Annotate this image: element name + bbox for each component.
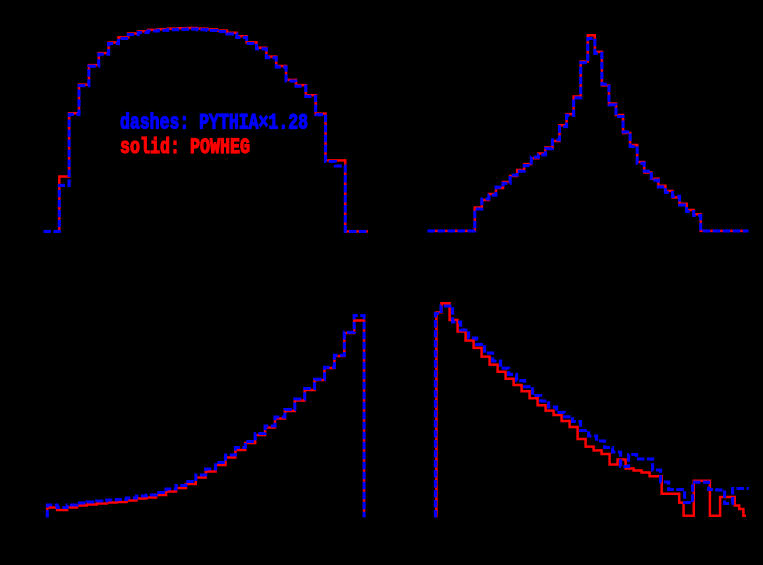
svg-text:dashes: PYTHIA×1.28: dashes: PYTHIA×1.28 — [120, 110, 308, 136]
bottom-left panel: PYTHIA dashed blue histogram — [47, 316, 364, 518]
bottom-left panel: POWHEG solid red histogram (rising distribution) — [47, 321, 364, 518]
bottom-right panel: PYTHIA dashed blue histogram — [435, 306, 748, 518]
top-left panel: POWHEG solid red histogram (rapidity distribution) — [59, 28, 368, 231]
svg-text:solid: POWHEG: solid: POWHEG — [120, 134, 250, 160]
bottom-right panel: POWHEG solid red histogram (falling distribution) — [436, 303, 746, 517]
top-right panel: PYTHIA dashed blue histogram — [428, 39, 749, 231]
top-left panel: PYTHIA dashed blue histogram — [44, 29, 369, 231]
top-right panel: POWHEG solid red histogram (peak distribution) — [428, 35, 749, 231]
